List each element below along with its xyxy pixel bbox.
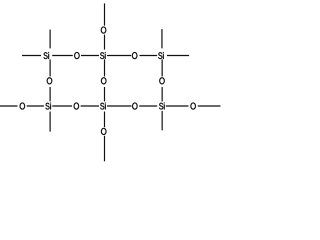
atom label silicon Si2 — [100, 52, 105, 59]
wire: bond Si6 to O_j — [166, 105, 189, 107]
atom label silicon Si4 — [46, 103, 51, 110]
wire: bond O_e to Si5 — [104, 87, 106, 101]
atom label oxygen O of bottom methoxy — [101, 128, 106, 134]
wire: methyl bond above Si3 — [161, 29, 163, 48]
wire: methoxy methyl bond at top — [104, 3, 106, 25]
atom label oxygen O_g of left methoxy — [20, 103, 25, 109]
wire: bond O_g to Si4 — [27, 105, 44, 107]
wire: bond Si2 to O_e — [104, 59, 106, 76]
wire: bond O_a to Si2 — [81, 55, 99, 57]
atom label oxygen O_j of right methoxy — [191, 103, 196, 109]
wire: bond O_i to Si6 — [139, 105, 157, 107]
wire: bond Si1 to O_d — [49, 59, 51, 76]
wire: bond Si2 to O_b — [107, 55, 131, 57]
wire: methoxy methyl bond at far left — [0, 105, 18, 107]
wire: methoxy methyl bond at bottom — [104, 136, 106, 162]
wire: bond Si5 to O_i — [107, 105, 132, 107]
atom label oxygen O of top methoxy — [101, 27, 106, 33]
wire: bond Si1 to O_a — [52, 55, 73, 57]
wire: bond O_b to Si3 — [140, 55, 158, 57]
wire: bond O_f to Si6 — [161, 87, 163, 101]
atom label oxygen O_f bridging Si3-Si6 — [160, 78, 165, 84]
atom label silicon Si6 — [159, 103, 164, 110]
atom label silicon Si5 — [100, 103, 105, 110]
atom label oxygen O_e bridging Si2-Si5 — [101, 78, 106, 84]
wire: methyl bond above Si1 — [49, 30, 51, 49]
atom label oxygen O_d bridging Si1-Si4 — [47, 78, 52, 84]
atom label silicon Si1 — [44, 52, 49, 59]
wire: bond O_top to Si2 — [104, 35, 106, 50]
atom label silicon Si3 — [158, 52, 163, 59]
wire: methyl bond right of Si3 — [167, 55, 189, 57]
wire: methyl bond left of Si1 — [22, 55, 41, 57]
atom label oxygen O_i bridging Si5-Si6 — [133, 103, 138, 109]
wire: methyl bond below Si4 — [49, 112, 51, 132]
wire: bond Si5 to O_k — [104, 112, 106, 128]
atom label oxygen O_b bridging Si2-Si3 — [132, 52, 137, 58]
wire: methyl bond below Si6 — [161, 111, 163, 130]
atom label oxygen O_a bridging Si1-Si2 — [75, 52, 80, 58]
wire: bond O_d to Si4 — [49, 87, 51, 101]
atom label oxygen O_h bridging Si4-Si5 — [74, 103, 79, 109]
wire: bond Si3 to O_f — [161, 59, 163, 76]
wire: methoxy methyl bond right of O_j — [198, 105, 221, 107]
wire: bond Si4 to O_h — [52, 105, 72, 107]
wire: bond O_h to Si5 — [81, 105, 99, 107]
